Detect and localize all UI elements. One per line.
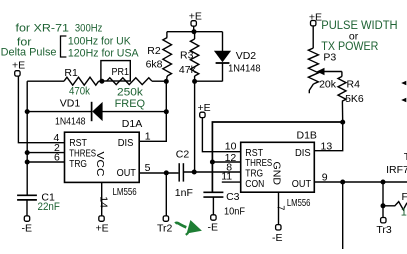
- label D1A: [122, 118, 142, 130]
- pin label RST B: [245, 147, 263, 159]
- note: for XR-71 300Hz: [16, 22, 103, 34]
- label R1: [64, 67, 78, 79]
- resistor R2: [163, 32, 172, 82]
- edge arrow 1: [401, 81, 406, 86]
- value R5 partial: [401, 206, 407, 218]
- svg-text:R4: R4: [347, 79, 361, 91]
- svg-text:C2: C2: [176, 149, 190, 161]
- svg-text:22nF: 22nF: [38, 201, 61, 213]
- pin number 1: [145, 131, 151, 143]
- value 47k: [179, 64, 197, 76]
- label Tr1 partial: [404, 151, 407, 163]
- wire rail down right: [342, 182, 344, 249]
- wiper P3: [317, 68, 342, 75]
- wire C2 to pin8: [183, 171, 240, 173]
- wire pin11 stub: [222, 181, 241, 183]
- label C1: [41, 191, 55, 203]
- wire R1 left: [27, 80, 64, 82]
- svg-text:IRF7-: IRF7-: [386, 164, 407, 176]
- pin number 10: [225, 140, 237, 152]
- pin label CON B: [245, 178, 264, 190]
- wire pin12: [212, 161, 240, 163]
- label IRF7: [386, 164, 407, 176]
- wire VD1 cathode side: [27, 111, 91, 113]
- svg-text:FREQ: FREQ: [115, 98, 146, 110]
- capacitor C1: [17, 195, 37, 216]
- pin label DIS A: [118, 137, 134, 149]
- pin label OUT A: [117, 167, 137, 179]
- note: or: [349, 31, 359, 43]
- svg-text:6k8: 6k8: [146, 59, 163, 71]
- terminal -E C3: [208, 215, 219, 234]
- svg-text:10nF: 10nF: [224, 206, 245, 218]
- label R2: [147, 45, 161, 57]
- node Tr3-R5: [381, 203, 386, 208]
- pin label DIS B: [295, 147, 311, 159]
- label 1N4148 VD2: [228, 63, 261, 75]
- svg-text:P3: P3: [323, 52, 336, 64]
- resistor R4: [338, 72, 346, 123]
- svg-text:D1A: D1A: [122, 118, 142, 130]
- svg-text:13: 13: [321, 141, 333, 153]
- node +E top: [192, 29, 197, 34]
- wire OUT B: [314, 181, 407, 183]
- svg-text:6: 6: [54, 152, 60, 164]
- note bracket: [61, 36, 67, 57]
- pin label VCC A: [94, 152, 106, 177]
- svg-text:D1B: D1B: [297, 129, 317, 141]
- node OUT-R4rail: [340, 180, 345, 185]
- diode VD2: [214, 32, 231, 82]
- pin number 8: [226, 161, 232, 173]
- wire rail R3 down: [194, 81, 196, 172]
- pin label THRES B: [245, 157, 272, 169]
- terminal -E C1: [22, 216, 33, 234]
- label R3: [180, 50, 194, 62]
- green arrow marker: [175, 220, 202, 235]
- terminal Tr2: [157, 216, 173, 234]
- pin number 7: [275, 205, 287, 210]
- label R4: [347, 79, 361, 91]
- pin label RST A: [69, 137, 87, 149]
- svg-text:47k: 47k: [179, 64, 197, 76]
- value 470k: [69, 85, 90, 97]
- wire pin2: [27, 152, 64, 154]
- value 6k8: [146, 59, 163, 71]
- terminal +E left: [12, 60, 25, 77]
- capacitor C2: [179, 163, 183, 181]
- terminal Tr3: [376, 218, 392, 237]
- resistor R3: [190, 32, 198, 82]
- svg-text:Tr3: Tr3: [376, 224, 392, 236]
- pin label GND B: [271, 162, 283, 186]
- terminal +E D1B: [198, 102, 211, 118]
- label VD1: [60, 98, 81, 110]
- wire pin14: [101, 182, 103, 216]
- label C2: [176, 149, 190, 161]
- svg-text:VD1: VD1: [60, 98, 81, 110]
- svg-text:14: 14: [97, 196, 109, 208]
- pin number 11: [221, 171, 232, 183]
- pin number 12: [225, 152, 237, 164]
- label PR1: [112, 66, 130, 78]
- op-amp U1 box D1A: [65, 132, 140, 182]
- edge arrow 2: [401, 98, 406, 103]
- svg-text:120Hz for USA: 120Hz for USA: [68, 47, 139, 59]
- capacitor C3: [203, 192, 223, 215]
- diode VD1: [92, 102, 103, 121]
- wire OUT A to C2: [139, 172, 178, 174]
- svg-text:R2: R2: [147, 45, 161, 57]
- value 250k: [117, 87, 143, 99]
- svg-text:Delta Pulse: Delta Pulse: [1, 47, 57, 59]
- node C2-R3rail: [192, 170, 197, 175]
- note: 120Hz for USA: [68, 47, 139, 59]
- svg-text:+E: +E: [12, 60, 25, 72]
- resistor R5 partial: [383, 202, 407, 210]
- node VD1-rail: [164, 109, 169, 114]
- node R3-VD2: [192, 79, 197, 84]
- node OUT-Tr3: [381, 180, 386, 185]
- svg-text:1: 1: [145, 131, 151, 143]
- label LM556 A: [113, 186, 137, 198]
- svg-text:20k: 20k: [319, 79, 337, 91]
- label C3: [226, 191, 240, 203]
- wire DIS bus: [212, 122, 342, 192]
- svg-text:C3: C3: [226, 191, 240, 203]
- node DIS-R4: [340, 120, 345, 125]
- potentiometer P3: [308, 26, 318, 94]
- pin number 13: [321, 141, 333, 153]
- wire pin13: [314, 122, 342, 151]
- label LM556 B: [287, 197, 311, 209]
- label FREQ: [115, 98, 146, 110]
- svg-text:CON: CON: [245, 178, 264, 190]
- node OUT-Tr2: [164, 170, 169, 175]
- op-amp U2 box D1B: [241, 142, 315, 192]
- pin label TRG B: [245, 167, 263, 179]
- wire pin10: [202, 117, 240, 151]
- svg-text:-E: -E: [208, 221, 219, 233]
- wire pin7: [278, 192, 280, 225]
- svg-text:VCC: VCC: [94, 152, 106, 177]
- note: TX POWER: [321, 41, 378, 53]
- wire +E rail to pin4: [18, 76, 64, 143]
- svg-text:LM556: LM556: [287, 197, 311, 209]
- pin label OUT B: [292, 178, 312, 190]
- resistor R1: [64, 77, 102, 85]
- value 1nF: [175, 187, 193, 199]
- pin number 5: [145, 162, 151, 174]
- svg-text:GND: GND: [271, 162, 283, 186]
- resistor PR1 element: [107, 78, 167, 85]
- value 22nF: [38, 201, 61, 213]
- svg-text:7: 7: [275, 205, 287, 210]
- terminal -E D1B: [272, 225, 283, 245]
- svg-text:DIS: DIS: [118, 137, 134, 149]
- wire VD1 anode side: [102, 111, 166, 113]
- label P3: [323, 52, 336, 64]
- svg-text:1N4148: 1N4148: [228, 63, 261, 75]
- pin number 14: [97, 196, 109, 208]
- wire +E top bus: [167, 26, 223, 32]
- wire to Tr2: [165, 173, 167, 216]
- note: 100Hz for UK: [68, 36, 131, 48]
- label D1B: [297, 129, 317, 141]
- svg-text:100Hz for UK: 100Hz for UK: [68, 36, 131, 48]
- svg-text:for XR-71: for XR-71: [16, 23, 70, 35]
- svg-text:OUT: OUT: [292, 178, 312, 190]
- svg-text:11: 11: [221, 171, 232, 183]
- value 10nF: [224, 206, 245, 218]
- svg-text:DIS: DIS: [295, 147, 311, 159]
- svg-text:1: 1: [401, 206, 407, 218]
- pin number 2: [54, 142, 60, 154]
- note: for Delta Pulse: [1, 36, 57, 58]
- svg-text:470k: 470k: [69, 85, 90, 97]
- svg-text:LM556: LM556: [113, 186, 137, 198]
- svg-text:F: F: [402, 191, 407, 203]
- wire VD2 to R3: [195, 80, 223, 82]
- svg-text:+E: +E: [96, 222, 109, 234]
- node PR1-R2: [164, 79, 169, 84]
- label VD2: [236, 50, 257, 62]
- svg-text:TRG: TRG: [69, 158, 87, 170]
- label 1N4148 VD1: [55, 115, 86, 127]
- svg-text:5K6: 5K6: [345, 93, 364, 105]
- svg-text:R3: R3: [180, 50, 194, 62]
- node pin12-rail: [210, 160, 215, 165]
- svg-text:R1: R1: [64, 67, 78, 79]
- pin number 4: [54, 132, 60, 144]
- wire left rail: [26, 81, 28, 195]
- svg-text:PULSE WIDTH: PULSE WIDTH: [321, 20, 397, 32]
- svg-text:-E: -E: [272, 232, 283, 244]
- svg-text:5: 5: [145, 162, 151, 174]
- svg-text:300Hz: 300Hz: [75, 22, 103, 34]
- svg-text:OUT: OUT: [117, 167, 137, 179]
- note: PULSE WIDTH: [321, 20, 397, 32]
- value 20k: [319, 79, 337, 91]
- svg-text:-E: -E: [22, 222, 33, 234]
- terminal +E D1A: [96, 216, 109, 234]
- wire rail R2-VD1-pin1: [139, 81, 166, 141]
- svg-text:PR1: PR1: [112, 66, 130, 78]
- svg-text:VD2: VD2: [236, 50, 257, 62]
- svg-text:10: 10: [225, 140, 237, 152]
- terminal +E P3: [309, 11, 322, 26]
- svg-text:250k: 250k: [117, 87, 143, 99]
- node left-VD1: [25, 109, 30, 114]
- node R1-PR1: [99, 79, 104, 84]
- svg-text:1nF: 1nF: [175, 187, 193, 199]
- potentiometer PR1 box: [101, 61, 130, 81]
- node pin6: [25, 160, 30, 165]
- node pin2: [25, 150, 30, 155]
- pin number 6: [54, 152, 60, 164]
- svg-text:1N4148: 1N4148: [55, 115, 86, 127]
- wire Tr3 drop: [382, 182, 384, 218]
- pin label THRES A: [69, 147, 96, 159]
- pin number 9: [322, 171, 328, 183]
- pin label TRG A: [69, 158, 87, 170]
- svg-text:Tr2: Tr2: [157, 222, 173, 234]
- wire pin6: [27, 161, 64, 163]
- label R5 partial: [402, 191, 407, 203]
- value 5K6: [345, 93, 364, 105]
- terminal +E top: [189, 10, 202, 26]
